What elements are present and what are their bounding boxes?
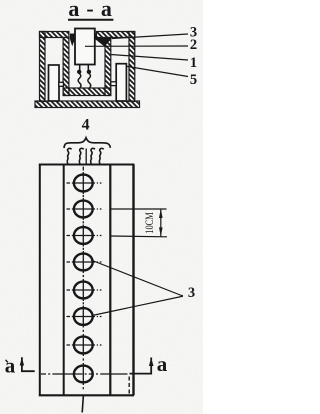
hole 3 axis — [67, 235, 102, 237]
center axis dash-dot line — [82, 167, 84, 390]
right bead dot — [87, 70, 91, 74]
hole circle 2 — [74, 201, 93, 218]
gas squiggle 3 — [91, 148, 95, 164]
leader line to label 3 — [112, 34, 188, 39]
inner vessel right wall — [105, 38, 111, 96]
leader line to label 1 — [111, 55, 188, 61]
inner vessel left wall — [63, 38, 69, 96]
title underline — [68, 19, 113, 21]
outer vessel left wall — [40, 32, 46, 102]
electrode neck left line — [79, 65, 81, 71]
gas brace — [64, 138, 110, 148]
leader line to hole 6 — [92, 297, 182, 316]
section mark left arrow — [20, 358, 24, 366]
column left outer line — [39, 165, 41, 396]
left coil squiggle — [78, 74, 81, 89]
center axis below column — [82, 395, 83, 412]
outer vessel bottom — [35, 101, 140, 108]
hole 8 section axis — [41, 373, 128, 375]
lid right segment — [96, 32, 134, 38]
leader line to label 2 — [85, 45, 188, 47]
hole circle 3 — [74, 227, 93, 244]
hole 4 axis — [67, 261, 102, 263]
column bottom edge — [39, 394, 134, 396]
right connector tab — [111, 82, 116, 86]
section mark right corner — [130, 358, 152, 374]
electrode neck right line — [87, 65, 89, 71]
svg-text:4: 4 — [82, 116, 90, 133]
section mark left corner — [22, 357, 35, 371]
hole 3 extension line — [111, 235, 168, 238]
left weld triangle — [70, 34, 75, 47]
hole circle 1 — [74, 175, 93, 192]
section mark right arrow — [149, 358, 154, 366]
gas squiggle 1 — [67, 148, 71, 164]
leader line to hole 4 — [91, 260, 182, 296]
dimension arrow down — [159, 227, 163, 236]
right coil squiggle — [88, 74, 91, 89]
svg-text:a: a — [157, 352, 168, 376]
hole 6 axis — [67, 316, 102, 318]
right side electrode 5 — [116, 64, 126, 101]
gas squiggle 2 — [79, 148, 83, 164]
svg-text:3: 3 — [188, 285, 195, 301]
hole 2 axis — [67, 208, 102, 210]
hole 2 extension line — [111, 208, 167, 210]
svg-text:5: 5 — [190, 72, 197, 88]
left connector tab — [59, 82, 64, 86]
column top edge — [39, 164, 135, 166]
hole circle 5 — [74, 282, 93, 299]
hole circle 7 — [74, 337, 93, 354]
section mark left accent — [6, 360, 8, 363]
hidden edge dashes bottom right — [128, 377, 130, 395]
hole circle 4 — [74, 254, 93, 271]
leader line to label 5 — [126, 66, 188, 76]
central electrode body 2 — [75, 29, 95, 65]
background paper — [0, 0, 203, 414]
right weld triangle — [95, 34, 112, 47]
hole 1 axis — [67, 182, 102, 184]
dimension arrow up — [159, 209, 163, 218]
svg-text:2: 2 — [190, 37, 197, 53]
svg-text:a - a: a - a — [68, 0, 112, 21]
left side electrode 5 — [49, 65, 60, 101]
column right outer line — [132, 165, 134, 396]
inner vessel bottom — [63, 88, 111, 96]
column right inner line — [109, 166, 111, 396]
lid left segment — [40, 32, 69, 38]
leader junction dot — [181, 295, 183, 297]
svg-text:a: a — [5, 354, 16, 378]
dimension extension arrows line — [160, 209, 162, 236]
hole circle 8 — [74, 366, 93, 383]
outer vessel right wall — [129, 32, 135, 102]
left bead dot — [77, 70, 81, 74]
column left inner line — [63, 166, 65, 396]
svg-text:1: 1 — [190, 55, 197, 71]
gas squiggle 4 — [99, 148, 103, 164]
svg-text:10CM: 10CM — [142, 212, 156, 234]
center feed line — [85, 149, 87, 164]
hole 5 axis — [67, 289, 102, 291]
hole circle 6 — [74, 308, 93, 325]
hole 7 axis — [67, 344, 102, 346]
